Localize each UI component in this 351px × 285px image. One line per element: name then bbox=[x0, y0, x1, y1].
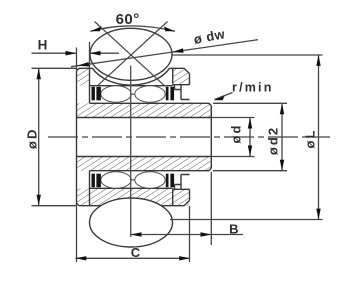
diameter d2 dimension line bbox=[281, 103, 283, 170]
diameter d2 top arrowhead bbox=[280, 103, 284, 114]
seal recess top right: lines bbox=[173, 85, 190, 100]
seal top-right bbox=[166, 87, 174, 101]
diameter D extension bottom bbox=[32, 205, 77, 207]
diameter dw leader line bbox=[71, 40, 258, 67]
outer ring top surface right land and chamfer bbox=[170, 68, 190, 73]
ball top-left bbox=[101, 86, 131, 102]
C extension line left bbox=[76, 206, 78, 262]
bore extension line top bbox=[211, 117, 254, 119]
diameter dw leader arrowhead at wire edge bbox=[172, 48, 184, 53]
outer ring bore web line top bbox=[90, 85, 173, 87]
outer ring left face bbox=[76, 71, 78, 86]
hatch outer ring top-left block bbox=[77, 68, 91, 85]
B extension line (flange face) bbox=[210, 172, 212, 245]
C right arrowhead bbox=[179, 256, 190, 260]
groove right wall bottom bbox=[172, 189, 174, 205]
inner ring top line bbox=[90, 103, 212, 106]
H right arrowhead bbox=[90, 51, 101, 56]
groove left wall bbox=[89, 68, 91, 103]
C extension line right bbox=[189, 206, 191, 262]
svg-text:øD: øD bbox=[25, 128, 40, 149]
B left arrowhead bbox=[131, 232, 142, 236]
inner ring flange right face bbox=[210, 106, 212, 168]
B right arrowhead bbox=[201, 232, 212, 236]
diameter L bottom arrowhead bbox=[316, 209, 320, 220]
svg-text:B: B bbox=[229, 222, 238, 237]
diameter D bottom arrowhead bbox=[37, 195, 41, 206]
hatch outer ring top-right block bbox=[170, 68, 190, 84]
L extension line bottom bbox=[170, 219, 323, 221]
cage pocket line top row bbox=[101, 93, 166, 95]
diameter L dimension line bbox=[318, 55, 320, 220]
seal recess bottom right: lines bbox=[173, 175, 190, 190]
60 degree arc left arrowhead bbox=[90, 27, 101, 32]
hatch outer ring bottom band bbox=[77, 189, 190, 206]
H dimension line bbox=[32, 52, 120, 54]
ball bottom-right bbox=[135, 172, 165, 188]
flange extension line top bbox=[213, 102, 287, 104]
diameter D extension top bbox=[32, 67, 77, 69]
outer ring bottom surface left land bbox=[77, 203, 101, 206]
diameter d dimension line bbox=[249, 118, 251, 157]
diameter d top arrowhead bbox=[248, 118, 252, 129]
inner ring left shoulder bottom bbox=[89, 171, 91, 206]
outer ring bore web line bottom bbox=[90, 187, 173, 189]
H extension line left bbox=[76, 48, 78, 71]
outer ring right face bbox=[189, 74, 191, 85]
inner ring bore top line bbox=[77, 117, 212, 119]
ball bottom-left bbox=[101, 172, 131, 188]
cage pocket line bottom row bbox=[101, 179, 166, 181]
r/min arrowhead bbox=[214, 96, 225, 100]
groove arch top bbox=[93, 68, 170, 85]
flange extension line bottom bbox=[213, 170, 287, 172]
svg-text:r/min: r/min bbox=[232, 80, 274, 94]
diameter D dimension line bbox=[38, 68, 40, 205]
vertical shaft centerline bbox=[130, 66, 132, 238]
groove right wall bbox=[172, 68, 174, 84]
inner ring bottom line bbox=[90, 168, 212, 171]
svg-text:H: H bbox=[38, 37, 48, 52]
B dimension line bbox=[131, 234, 243, 236]
hatch inner ring lower band bbox=[77, 157, 212, 171]
contact angle cross line 2 bbox=[98, 22, 168, 86]
bore extension line bottom bbox=[211, 156, 254, 158]
r/min leader line bbox=[215, 93, 233, 100]
svg-text:60°: 60° bbox=[116, 11, 140, 28]
seal bottom-left bbox=[92, 174, 101, 188]
svg-text:ød: ød bbox=[229, 124, 244, 144]
diameter dw leader arrowhead at ring corner bbox=[78, 62, 90, 67]
60 degree dimension arc bbox=[90, 26, 175, 31]
outer ring top surface left land bbox=[77, 68, 93, 71]
svg-text:ød2: ød2 bbox=[266, 126, 281, 155]
60 degree arc right arrowhead bbox=[164, 27, 175, 32]
diameter D top arrowhead bbox=[37, 68, 41, 79]
diameter d2 bottom arrowhead bbox=[280, 160, 284, 171]
track wire circle bottom bbox=[90, 198, 173, 247]
horizontal axis centerline bbox=[48, 136, 330, 138]
hatch inner ring upper band bbox=[77, 103, 212, 117]
inner ring bore bottom line bbox=[77, 156, 212, 158]
seal bottom-right bbox=[166, 174, 174, 188]
svg-text:øL: øL bbox=[303, 129, 318, 149]
H extension line right (wire tangent) bbox=[89, 42, 91, 68]
outer ring bottom surface right land and chamfer bbox=[162, 201, 190, 206]
ball top-right bbox=[135, 86, 165, 102]
seal top-left bbox=[92, 87, 101, 101]
track wire circle top bbox=[90, 28, 172, 80]
C dimension line bbox=[76, 257, 191, 259]
diameter L top arrowhead bbox=[316, 55, 320, 66]
diameter d bottom arrowhead bbox=[248, 146, 252, 157]
inner ring left face bbox=[76, 86, 78, 206]
C left arrowhead bbox=[76, 256, 87, 260]
L extension line top bbox=[173, 54, 323, 56]
outer ring right face bottom bbox=[189, 189, 191, 200]
svg-text:C: C bbox=[131, 245, 141, 260]
H left arrowhead bbox=[66, 51, 77, 56]
contact angle cross line 1 bbox=[95, 22, 165, 86]
